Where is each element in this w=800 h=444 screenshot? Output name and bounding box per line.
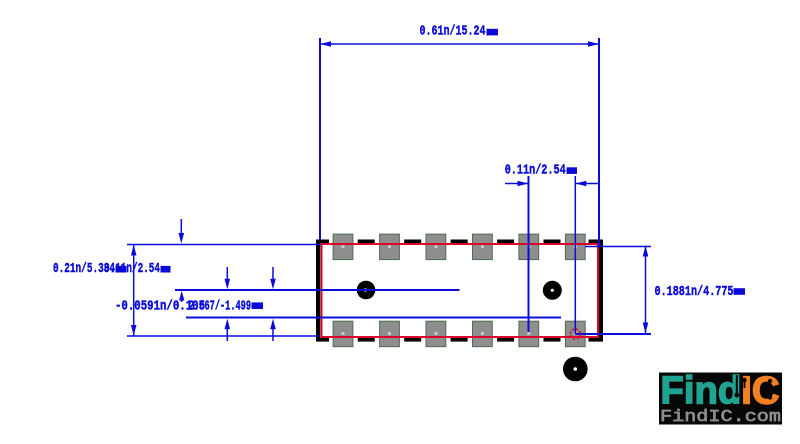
pad 2 [380,234,400,260]
hole left [357,281,376,300]
courtyard outline bottom dashed edge [316,338,603,342]
offset line upper [175,289,460,291]
offset arrows up pair [226,329,228,341]
svg-text:0.61n/15.24: 0.61n/15.24 [420,24,486,40]
pad 5 [519,234,539,260]
pitch dimension left tail [505,183,528,185]
small up arrow at datum [179,291,184,301]
pitch dimension arrow right [576,181,587,186]
courtyard outline right edge [599,240,603,342]
hole below package [563,357,588,382]
left dimension extension bottom [127,335,318,337]
silkscreen body outline (red) [322,244,599,337]
svg-text:0.11n/2.54: 0.11n/2.54 [104,261,160,277]
label 0.1881n/4.775mm [655,284,746,300]
pad 9 [426,321,446,347]
courtyard outline top dashed edge [316,240,603,244]
top dimension arrow left [320,41,331,47]
pitch extension line pad6 [574,176,576,334]
pad 7 [333,321,353,347]
left dimension arrow down [131,325,137,336]
courtyard outline left edge [316,240,320,342]
FindIC logo [659,370,782,427]
left dimension line [133,245,135,337]
svg-text:0.1881n/4.775: 0.1881n/4.775 [655,284,734,300]
top dimension line [320,43,599,45]
origin marker red dashed circle [570,329,580,339]
label 2.667/-1.499mm overlapping [189,298,263,314]
offset arrows down pair [226,267,228,281]
label 0.11n/2.54mm overlapping [104,261,171,277]
offset datum arrow (down) [180,219,182,235]
pad 8 [380,321,400,347]
pad 6 [565,234,585,260]
pad 10 [473,321,493,347]
pad number marks [342,245,577,335]
svg-text:0.11n/2.54: 0.11n/2.54 [505,162,566,178]
left dimension arrow up [131,245,137,256]
left dimension extension top [127,244,321,246]
pad 1 [333,234,353,260]
pad 12 [565,321,585,347]
right dimension arrow up [643,246,649,257]
offset line lower [186,317,561,319]
pitch dimension right tail [575,183,598,185]
svg-text:FindIC: FindIC [661,370,780,413]
right dimension extension top [585,246,651,248]
label 0.21n/5.334mm [53,261,127,277]
label 0.11n/2.54mm [505,162,577,178]
top dimension extension line right [598,38,600,246]
pad 3 [426,234,446,260]
top dimension extension line left [319,38,321,240]
right dimension arrow down [643,323,649,334]
top dimension arrow right [588,41,599,47]
svg-text:2.667/-1.499: 2.667/-1.499 [189,298,251,314]
svg-text:FindIC.com: FindIC.com [660,408,781,427]
pitch dimension arrow left [518,181,529,186]
right dimension extension bottom [575,333,651,335]
pad 11 [519,321,539,347]
pitch extension line pad5 [528,176,530,332]
right dimension line [645,246,647,334]
hole right [543,281,562,300]
pad 4 [473,234,493,260]
label 0.61n/15.24mm [420,24,499,40]
